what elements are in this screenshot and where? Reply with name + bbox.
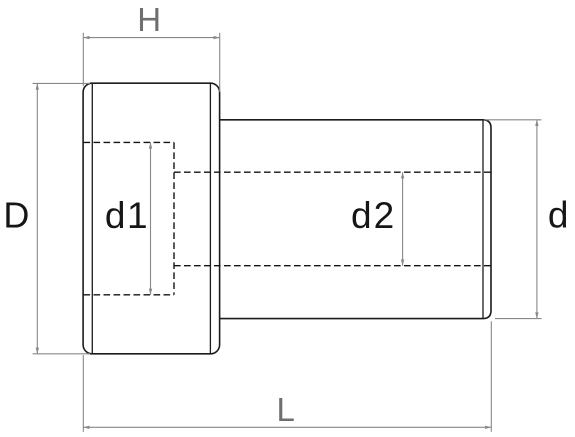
dimension H arrows bbox=[83, 36, 89, 39]
dimension d arrows bbox=[535, 120, 538, 126]
body outline bbox=[220, 120, 491, 319]
hidden bore d1 bottom bbox=[84, 294, 175, 296]
dimension d line bbox=[536, 120, 538, 319]
flange outline bbox=[83, 83, 220, 354]
body right tangent line bbox=[482, 120, 484, 318]
dimension d2 arrows bbox=[401, 172, 404, 178]
dimension d1 line bbox=[150, 142, 152, 294]
dimension D extension lines bbox=[33, 82, 90, 84]
hidden bore d2 top bbox=[174, 171, 491, 173]
dimension d extension lines bbox=[484, 119, 542, 121]
dimension D arrows bbox=[36, 83, 39, 89]
dimension d1 arrows bbox=[149, 142, 152, 148]
dimension H extension lines bbox=[82, 33, 84, 86]
dimension L arrows bbox=[83, 426, 89, 429]
svg-text:d1: d1 bbox=[105, 195, 149, 236]
flange left tangent line bbox=[91, 84, 93, 354]
svg-text:d: d bbox=[548, 195, 569, 236]
dimension L extension lines bbox=[82, 355, 84, 432]
svg-text:L: L bbox=[277, 391, 295, 428]
hidden bore d2 bottom bbox=[174, 265, 491, 267]
dimension d2 line bbox=[402, 172, 404, 266]
svg-text:D: D bbox=[3, 195, 29, 236]
dimension D line bbox=[36, 83, 38, 353]
svg-text:H: H bbox=[137, 1, 161, 38]
dimension L line bbox=[83, 426, 491, 428]
svg-text:d2: d2 bbox=[351, 195, 396, 236]
dimension H line bbox=[83, 37, 219, 39]
flange right tangent line bbox=[209, 84, 211, 354]
hidden bore step face bbox=[173, 142, 175, 294]
hidden bore d1 top bbox=[84, 141, 175, 143]
